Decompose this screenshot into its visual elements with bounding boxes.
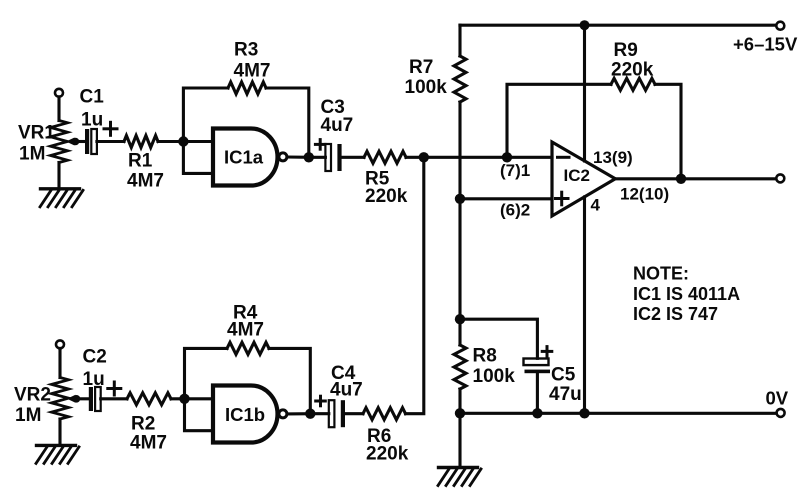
wire: [342, 156, 364, 159]
wire (+V rail): [460, 24, 777, 27]
svg-text:4u7: 4u7: [321, 115, 354, 136]
resistor R9: [611, 78, 655, 90]
label 1u: [83, 369, 105, 390]
label C1: [80, 87, 105, 108]
label C3: [321, 97, 345, 118]
note text: [633, 264, 740, 325]
label VR2: [14, 385, 51, 406]
label R4: [233, 303, 258, 324]
node A: [178, 136, 188, 146]
svg-text:4M7: 4M7: [227, 320, 264, 341]
capacitor C4: [329, 400, 345, 427]
polarity + (C5): [542, 347, 552, 357]
op-amp IC2: [552, 142, 615, 216]
label C5: [551, 365, 576, 386]
polarity + (C1): [104, 122, 117, 135]
potentiometer VR1: [51, 121, 68, 163]
svg-text:C5: C5: [551, 365, 576, 386]
ground: [36, 445, 79, 463]
label 220k: [365, 186, 408, 207]
svg-text:C1: C1: [80, 87, 105, 108]
label R2: [131, 414, 155, 435]
svg-text:4M7: 4M7: [127, 171, 164, 192]
label 0V: [766, 388, 789, 409]
resistor R5: [364, 151, 406, 163]
wire: [57, 97, 60, 121]
svg-text:4u7: 4u7: [330, 380, 363, 401]
svg-text:1M: 1M: [19, 144, 45, 165]
capacitor C5: [524, 359, 551, 374]
label 1M: [15, 405, 41, 426]
svg-text:IC2 IS 747: IC2 IS 747: [633, 304, 718, 324]
resistor R6: [363, 408, 406, 420]
wire (0V rail): [460, 412, 777, 415]
node I: [455, 408, 465, 418]
capacitor C3: [325, 144, 341, 171]
label 220k: [366, 444, 409, 465]
wire: [406, 156, 424, 159]
svg-text:+6–15V: +6–15V: [733, 34, 798, 55]
terminal 0V: [777, 409, 785, 417]
wire: [269, 348, 310, 413]
wire: [75, 397, 89, 400]
svg-text:100k: 100k: [473, 366, 516, 387]
svg-text:VR2: VR2: [14, 385, 51, 406]
wire: [183, 142, 213, 174]
svg-text:220k: 220k: [365, 186, 408, 207]
svg-text:220k: 220k: [611, 60, 654, 81]
wire (non-inverting input): [460, 197, 552, 200]
label 47u: [549, 384, 582, 405]
terminal (VR2 top): [56, 340, 64, 348]
resistor R1: [124, 136, 158, 148]
label 13(9): [593, 148, 633, 167]
label 4M7: [234, 61, 271, 82]
wire: [507, 84, 611, 157]
wire: [185, 399, 214, 431]
label R1: [128, 151, 153, 172]
svg-text:C2: C2: [83, 347, 107, 368]
svg-text:220k: 220k: [366, 444, 409, 465]
capacitor C2: [89, 387, 101, 411]
wire (output): [615, 177, 776, 180]
nand-gate IC1b: [213, 386, 287, 443]
label 4u7: [321, 115, 354, 136]
svg-text:47u: 47u: [549, 384, 582, 405]
svg-text:4: 4: [591, 196, 601, 215]
wire: [74, 140, 85, 143]
polarity + (C2): [108, 382, 121, 395]
wire (inverting input): [424, 156, 552, 159]
label C4: [331, 363, 356, 384]
svg-text:0V: 0V: [766, 388, 789, 409]
terminal +6-15V: [776, 22, 784, 30]
wire: [406, 157, 424, 413]
label 220k: [611, 60, 654, 81]
svg-text:4M7: 4M7: [234, 61, 271, 82]
ground: [40, 189, 83, 207]
svg-text:NOTE:: NOTE:: [633, 264, 689, 284]
label 1u: [81, 110, 103, 131]
wire: [101, 397, 127, 400]
svg-text:12(10): 12(10): [620, 185, 669, 204]
wire: [58, 348, 61, 377]
label R8: [473, 346, 497, 367]
wire: [460, 319, 537, 358]
resistor R8: [454, 345, 466, 389]
svg-text:IC1a: IC1a: [224, 147, 264, 168]
label R9: [614, 40, 638, 61]
svg-text:1u: 1u: [81, 110, 103, 131]
node F: [580, 20, 590, 30]
label 4u7: [330, 380, 363, 401]
wire: [183, 140, 213, 143]
svg-text:(7)1: (7)1: [500, 161, 530, 180]
svg-text:1M: 1M: [15, 405, 41, 426]
resistor R4: [227, 342, 269, 354]
VR2 wiper arrow: [67, 395, 76, 403]
wire: [309, 156, 326, 159]
label VR1: [18, 123, 55, 144]
svg-text:R3: R3: [234, 40, 258, 61]
terminal output: [776, 174, 784, 182]
resistor R3: [228, 82, 266, 94]
label R5: [365, 169, 390, 190]
potentiometer VR2: [52, 378, 69, 420]
label C2: [83, 347, 107, 368]
svg-text:R8: R8: [473, 346, 497, 367]
label 1M: [19, 144, 45, 165]
VR1 wiper arrow: [66, 138, 75, 146]
wire: [185, 397, 214, 400]
node D: [305, 409, 315, 419]
node K (feedback tap): [502, 152, 512, 162]
wire: [655, 84, 681, 179]
node J: [532, 408, 542, 418]
label 4M7: [227, 320, 264, 341]
wire: [158, 140, 183, 143]
label 4 (pin): [591, 196, 601, 215]
wire: [185, 348, 228, 398]
node G (+input): [455, 194, 465, 204]
wire: [458, 319, 461, 345]
wire: [345, 412, 363, 415]
svg-text:(6)2: (6)2: [500, 201, 530, 220]
svg-text:IC1b: IC1b: [225, 404, 265, 425]
svg-text:13(9): 13(9): [593, 148, 633, 167]
capacitor C1: [85, 129, 97, 154]
label +6-15V: [733, 34, 798, 55]
resistor R7: [454, 56, 466, 102]
wire: [287, 155, 309, 158]
label (7)1: [500, 161, 530, 180]
resistor R2: [127, 393, 171, 405]
node L (output): [676, 174, 686, 184]
wire: [458, 413, 461, 467]
wire (V+ pin): [583, 25, 586, 161]
label 100k: [405, 77, 448, 98]
label R7: [409, 57, 433, 78]
nand-gate IC1a: [213, 129, 287, 186]
label R6: [367, 426, 391, 447]
svg-text:IC1 IS 4011A: IC1 IS 4011A: [633, 284, 740, 304]
wire: [458, 199, 461, 319]
wire: [171, 397, 185, 400]
label 4M7: [130, 433, 167, 454]
svg-text:R1: R1: [128, 151, 153, 172]
svg-text:1u: 1u: [83, 369, 105, 390]
svg-text:R7: R7: [409, 57, 433, 78]
wire: [287, 412, 310, 415]
node E (summing junction): [419, 152, 429, 162]
polarity + (C4): [316, 396, 326, 406]
node C: [179, 394, 189, 404]
svg-text:4M7: 4M7: [130, 433, 167, 454]
wire: [183, 88, 228, 142]
node M: [579, 408, 589, 418]
terminal (VR1 top): [55, 89, 63, 97]
wire: [310, 412, 329, 415]
svg-text:R2: R2: [131, 414, 155, 435]
label 100k: [473, 366, 516, 387]
node (VR1 wiper): [72, 138, 80, 146]
svg-text:IC2: IC2: [564, 166, 590, 185]
wire: [57, 163, 60, 189]
node (VR2 wiper): [73, 395, 81, 403]
wire: [58, 419, 61, 445]
node B: [304, 152, 314, 162]
label (6)2: [500, 201, 530, 220]
label R3: [234, 40, 258, 61]
polarity + (C3): [315, 140, 325, 150]
wire (V- pin): [583, 197, 586, 413]
ground: [438, 468, 481, 486]
label 12(10): [620, 185, 669, 204]
wire: [458, 102, 461, 199]
wire: [266, 88, 309, 157]
label 4M7: [127, 171, 164, 192]
wire: [458, 25, 461, 56]
wire: [97, 140, 124, 143]
svg-text:R9: R9: [614, 40, 638, 61]
node H: [455, 314, 465, 324]
svg-text:100k: 100k: [405, 77, 448, 98]
wire: [458, 389, 461, 413]
svg-text:VR1: VR1: [18, 123, 55, 144]
wire: [536, 373, 539, 413]
